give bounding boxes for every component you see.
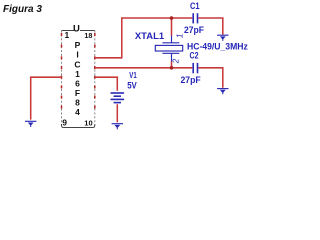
right edge dashed bbox=[94, 31, 96, 125]
svg-text:XTAL1: XTAL1 bbox=[135, 31, 164, 41]
svg-text:4: 4 bbox=[75, 107, 80, 117]
notch gap bbox=[74, 28, 80, 32]
svg-text:1: 1 bbox=[65, 30, 70, 40]
svg-text:I: I bbox=[76, 50, 78, 60]
svg-text:9: 9 bbox=[62, 118, 67, 128]
IC pins (red ticks) right side bbox=[94, 33, 96, 109]
ground (mid right) bbox=[217, 89, 228, 95]
ground (top right) bbox=[217, 35, 228, 41]
node junction bottom bbox=[170, 66, 174, 70]
IC pin numbers bbox=[62, 30, 92, 128]
left edge dashed bbox=[61, 31, 63, 125]
crystal XTAL1 bbox=[155, 36, 182, 62]
svg-text:C1: C1 bbox=[190, 1, 200, 11]
wire OSC2 pin15 to crystal-bottom/C2 net bbox=[95, 67, 192, 69]
IC U1 PIC16F84 outline bbox=[62, 23, 95, 127]
node junction top bbox=[170, 16, 174, 20]
svg-text:10: 10 bbox=[84, 119, 92, 128]
svg-text:C: C bbox=[74, 59, 80, 69]
capacitor C1 bbox=[193, 13, 197, 23]
ground (left of IC) bbox=[25, 121, 36, 127]
IC pins (red ticks) left side bbox=[61, 33, 63, 109]
svg-text:HC-49/U_3MHz: HC-49/U_3MHz bbox=[187, 41, 248, 51]
svg-text:18: 18 bbox=[84, 31, 92, 40]
wire VDD pin14 to battery bbox=[95, 77, 117, 91]
ground (battery) bbox=[112, 124, 123, 130]
wire OSC1 pin16 to crystal-top/C1 net bbox=[95, 18, 192, 58]
svg-text:1: 1 bbox=[75, 69, 80, 79]
bottom edge bbox=[62, 124, 95, 128]
wire crystal bottom stub (red) bbox=[171, 62, 173, 68]
wire C2 right to ground bbox=[198, 68, 223, 88]
battery V1 bbox=[111, 93, 125, 103]
svg-text:F: F bbox=[75, 88, 80, 98]
svg-text:5V: 5V bbox=[127, 81, 137, 91]
svg-text:2: 2 bbox=[172, 58, 181, 64]
svg-text:8: 8 bbox=[75, 97, 80, 107]
svg-text:Figura 3: Figura 3 bbox=[3, 4, 42, 15]
svg-text:27pF: 27pF bbox=[184, 25, 204, 36]
svg-text:27pF: 27pF bbox=[181, 75, 201, 86]
capacitor C2 bbox=[193, 63, 197, 73]
wire crystal top stub (red) bbox=[171, 18, 173, 36]
IC name PIC16F84 vertical bbox=[74, 40, 80, 117]
svg-text:U: U bbox=[73, 23, 80, 34]
svg-text:P: P bbox=[75, 40, 81, 50]
wire C1 right to ground bbox=[198, 18, 223, 35]
top edge bbox=[62, 30, 95, 32]
wire battery negative to ground bbox=[116, 104, 118, 122]
svg-text:6: 6 bbox=[75, 78, 80, 88]
wire VSS pin5 to ground (left) bbox=[31, 77, 62, 119]
svg-text:1: 1 bbox=[174, 33, 184, 38]
svg-text:V1: V1 bbox=[129, 70, 137, 80]
svg-text:C2: C2 bbox=[190, 50, 199, 60]
